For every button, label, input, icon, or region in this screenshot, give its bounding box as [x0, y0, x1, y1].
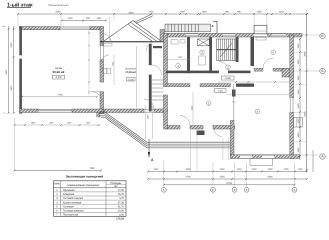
svg-text:1600: 1600 — [251, 168, 257, 171]
svg-text:1500: 1500 — [201, 11, 207, 14]
svg-text:1,08: 1,08 — [218, 90, 223, 93]
big room open edge thin line — [233, 84, 235, 123]
svg-text:5800: 5800 — [267, 176, 273, 179]
bottom door opening + arc — [144, 109, 154, 112]
garage door arc (to vestibule) — [92, 92, 102, 102]
interior vertical wall x187 — [187, 37, 190, 73]
svg-text:Гостиная: Гостиная — [63, 205, 74, 208]
section mark A bottom — [148, 139, 154, 162]
svg-text:2180: 2180 — [256, 11, 262, 14]
bay extension lines — [254, 14, 267, 25]
svg-text:Гостевая комната: Гостевая комната — [63, 210, 84, 213]
vestibule door arc — [152, 65, 162, 75]
svg-text:4000: 4000 — [128, 11, 134, 14]
svg-text:175,16: 175,16 — [116, 218, 124, 221]
svg-text:1800: 1800 — [297, 59, 300, 65]
svg-text:1400: 1400 — [297, 132, 300, 138]
svg-text:2250: 2250 — [219, 176, 225, 179]
svg-text:3600: 3600 — [304, 51, 307, 57]
room tag circles — [176, 50, 276, 114]
svg-text:20,90: 20,90 — [118, 210, 125, 213]
door arc top-right room — [263, 58, 273, 68]
door arcs middle-bottom — [180, 116, 190, 126]
svg-text:6,30: 6,30 — [119, 214, 124, 217]
svg-text:т.осн: т.осн — [1, 25, 5, 28]
interior vertical wall x236 — [236, 37, 239, 62]
porch edge thick line — [100, 41, 166, 42]
svg-text:Экспликация помещений: Экспликация помещений — [66, 175, 104, 179]
interior dim line y82 — [218, 81, 293, 83]
svg-text:8400: 8400 — [304, 111, 307, 117]
svg-text:1500: 1500 — [297, 147, 300, 153]
svg-text:5400: 5400 — [10, 85, 13, 91]
radiator under bay — [256, 37, 266, 40]
top dim row 2 — [62, 20, 106, 22]
svg-text:1300: 1300 — [297, 43, 300, 49]
thin beam line big room — [227, 94, 291, 96]
svg-text:7130: 7130 — [57, 94, 63, 97]
axis extension lines — [164, 160, 295, 187]
interior vertical wall x209 — [209, 37, 212, 73]
svg-text:5980: 5980 — [55, 11, 61, 14]
main top wall — [166, 33, 302, 37]
svg-text:2900: 2900 — [10, 42, 13, 48]
svg-text:Прихожая: Прихожая — [63, 189, 75, 192]
corner block right — [282, 68, 294, 77]
svg-text:Гостевой санузел: Гостевой санузел — [63, 197, 84, 200]
svg-text:1400: 1400 — [297, 75, 300, 81]
canopy door swing — [104, 34, 111, 41]
WC fixtures left room — [171, 40, 178, 45]
svg-text:Наименование помещения: Наименование помещения — [67, 184, 99, 187]
labels boxes middle — [222, 76, 235, 80]
svg-text:15,70: 15,70 — [118, 193, 125, 196]
top wall windows — [186, 34, 286, 37]
svg-text:8490: 8490 — [5, 69, 8, 75]
svg-text:Кладовая: Кладовая — [63, 193, 75, 196]
svg-text:1200: 1200 — [179, 11, 185, 14]
wall stub — [232, 90, 236, 97]
bottom axis circles — [161, 187, 296, 192]
interior vertical wall x251 — [251, 37, 255, 66]
svg-text:Постирочная: Постирочная — [63, 214, 79, 217]
svg-text:1700: 1700 — [283, 168, 289, 171]
dim guides crossing path — [191, 129, 229, 172]
garage bottom wall — [20, 109, 39, 113]
svg-text:1540: 1540 — [153, 168, 159, 171]
garage right wall — [100, 27, 104, 46]
svg-text:-0,020: -0,020 — [224, 77, 231, 80]
svg-text:1500: 1500 — [297, 118, 300, 124]
garage room label — [53, 67, 65, 79]
svg-text:1400: 1400 — [297, 89, 300, 95]
top-right room bottom wall — [254, 68, 263, 71]
garage left wall window tick — [19, 55, 22, 59]
svg-text:1200: 1200 — [67, 17, 73, 20]
svg-text:-0,450: -0,450 — [55, 76, 62, 79]
bottom dim row A — [148, 171, 307, 173]
svg-text:Кухня-столовая: Кухня-столовая — [63, 201, 82, 204]
svg-text:2120: 2120 — [148, 11, 154, 14]
svg-text:51,70: 51,70 — [118, 205, 125, 208]
garage top window — [60, 27, 90, 30]
svg-text:7560: 7560 — [89, 167, 95, 170]
right wall — [290, 35, 294, 98]
right wall window — [290, 98, 293, 112]
svg-text:-0,020: -0,020 — [128, 78, 135, 81]
bottom wall windows — [240, 155, 252, 158]
right axis circles — [320, 33, 325, 159]
svg-text:3600: 3600 — [185, 168, 191, 171]
canopy triangle — [104, 14, 161, 41]
vestibule fixtures — [102, 55, 110, 62]
top extension guide lines — [18, 10, 307, 170]
vestibule label — [125, 67, 137, 81]
top dim row1 numbers — [55, 11, 284, 14]
entry door arc in porch line — [146, 42, 156, 52]
horizontal wall y83.5 — [166, 84, 190, 87]
svg-text:Принципиальная: Принципиальная — [48, 4, 69, 7]
interior dim middle-bottom room — [192, 92, 194, 125]
garage bottom dim — [15, 170, 102, 172]
svg-text:№№: №№ — [54, 183, 60, 186]
svg-text:Прихожая: Прихожая — [125, 67, 137, 70]
entrance step below big room — [250, 159, 273, 166]
garage gate (bottom opening) — [38, 109, 72, 112]
narrow stair strip — [152, 80, 164, 100]
middle-bottom room bottom wall — [168, 126, 181, 130]
svg-text:1400: 1400 — [297, 103, 300, 109]
wall left of steps (entry pier) — [160, 30, 165, 42]
garage top wall right pier — [90, 27, 100, 30]
svg-text:3,70: 3,70 — [119, 197, 124, 200]
svg-text:17,06 м2: 17,06 м2 — [125, 71, 136, 74]
svg-text:17,30: 17,30 — [118, 189, 125, 192]
tambour width dims — [145, 106, 152, 139]
porch side wall stub — [97, 113, 100, 118]
top dim row 1 — [18, 13, 307, 15]
garage top wall — [20, 27, 61, 30]
step below middle-bottom wall — [197, 131, 205, 136]
svg-text:1900: 1900 — [219, 168, 225, 171]
svg-text:1200: 1200 — [297, 168, 303, 171]
apron dim line under garage — [15, 124, 101, 126]
svg-text:т.п: т.п — [3, 112, 5, 115]
vestibule right wall — [149, 44, 152, 65]
svg-text:1600: 1600 — [267, 168, 273, 171]
bay window — [254, 25, 267, 34]
svg-text:1400: 1400 — [236, 168, 242, 171]
bottom dim row B — [148, 178, 307, 180]
vestibule bottom wall — [104, 109, 144, 113]
garage interior dimension — [22, 96, 97, 98]
svg-text:5730: 5730 — [185, 176, 191, 179]
horizontal wall y70.6 — [166, 71, 219, 74]
garage left wall — [20, 27, 22, 114]
svg-text:1520: 1520 — [278, 11, 284, 14]
svg-text:В: В — [321, 34, 323, 38]
vestibule interior dims — [136, 46, 138, 108]
title "1-ый этаж" — [7, 3, 33, 9]
chimney outside right — [294, 118, 303, 128]
garage interior vertical dim — [88, 30, 90, 95]
stair — [217, 39, 236, 61]
svg-text:12250: 12250 — [226, 182, 233, 185]
svg-text:50,26 м2: 50,26 м2 — [53, 70, 65, 74]
door arc at stair landing — [219, 62, 228, 71]
top dim row1 ticks — [17, 13, 308, 15]
bottom dim row C (overall) — [164, 184, 295, 186]
svg-text:37,30: 37,30 — [118, 201, 125, 204]
ventilation shaft with X — [198, 39, 210, 46]
big room bottom wall — [230, 155, 299, 159]
interior dim left room — [165, 58, 190, 60]
section mark A top — [212, 21, 218, 34]
big room left wall — [230, 121, 234, 159]
entrance steps strip — [165, 24, 211, 32]
svg-text:Б: Б — [321, 69, 323, 73]
